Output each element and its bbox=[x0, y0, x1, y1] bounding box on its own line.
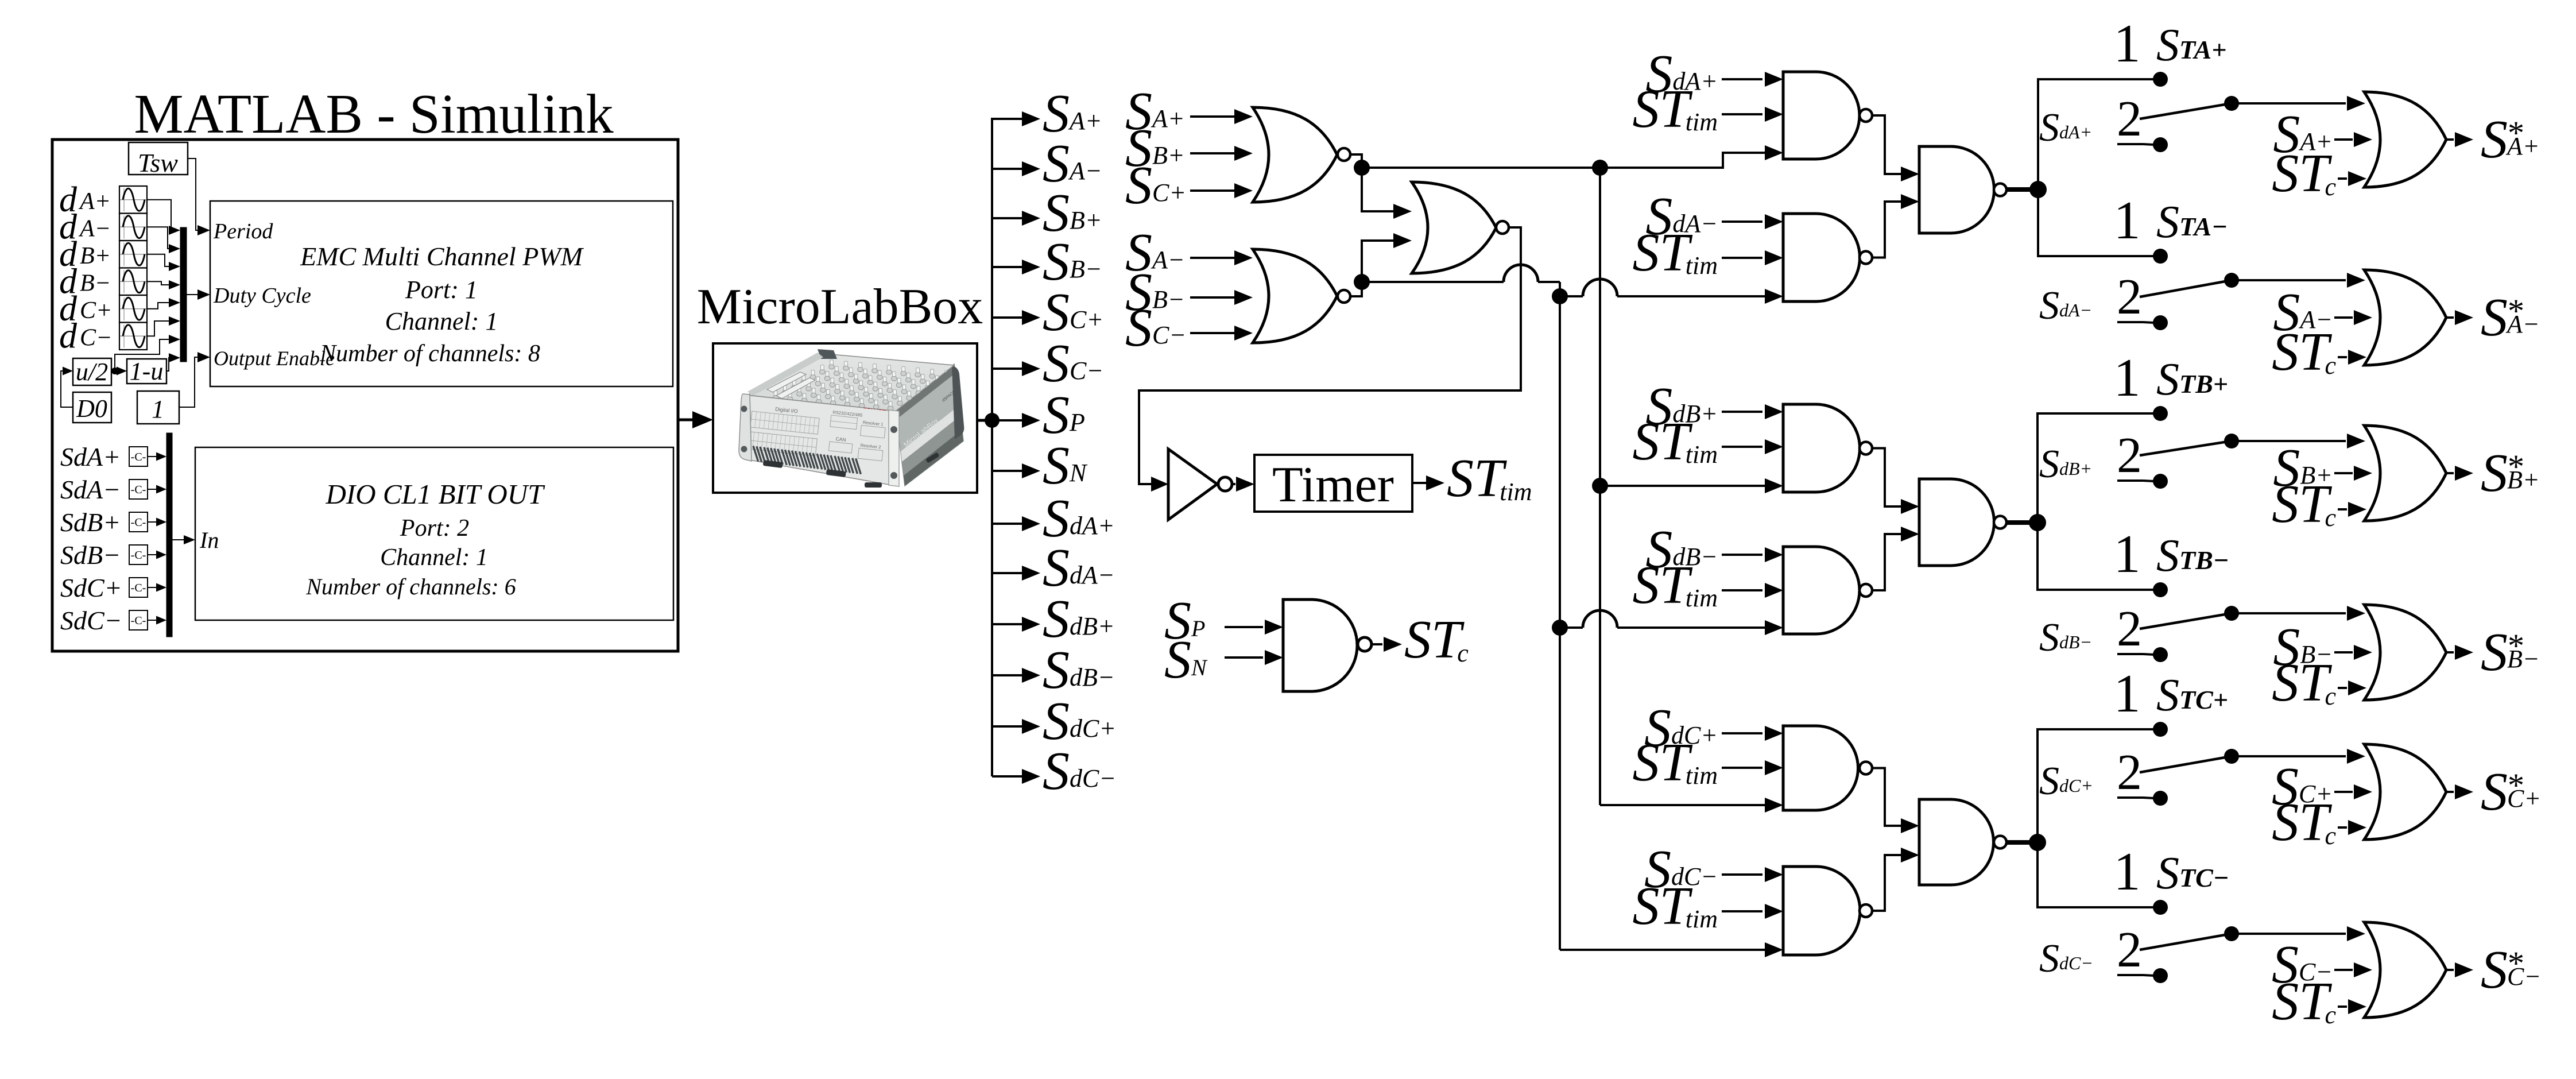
svg-text:Number of channels: 8: Number of channels: 8 bbox=[319, 341, 540, 367]
wire u/2 output branch to Mux1 input 7 bbox=[115, 335, 180, 371]
block constant 1 bbox=[137, 391, 179, 424]
wire NAND B3 output to node TB bbox=[2006, 520, 2037, 525]
input label SdC− to NAND C− bbox=[1644, 840, 1783, 899]
switch TA− lever arm bbox=[2140, 280, 2232, 297]
svg-text:SdA−: SdA− bbox=[60, 475, 121, 504]
sine wave source dA+ block bbox=[119, 186, 147, 214]
svg-text:-C-: -C- bbox=[131, 582, 146, 594]
svg-text:Number of channels: 6: Number of channels: 6 bbox=[305, 574, 516, 600]
wire constant 1 to EMC Output Enable input bbox=[179, 352, 210, 407]
wire sine dA+ to Mux1 input 1 bbox=[147, 200, 180, 235]
svg-text:2: 2 bbox=[2117, 601, 2142, 657]
svg-text:STc: STc bbox=[2272, 972, 2336, 1031]
svg-text:MATLAB - Simulink: MATLAB - Simulink bbox=[134, 83, 614, 145]
mux Mux1 (8 duty-cycle channels) bbox=[180, 227, 187, 362]
output wire and label S*A+ bbox=[2446, 110, 2540, 169]
wire -C- SdC+ to Mux2 bbox=[148, 583, 166, 592]
wire u/2 output to 1-u input bbox=[111, 367, 127, 376]
svg-text:SdC+: SdC+ bbox=[60, 573, 122, 602]
switch TC+ terminal 2 contact bbox=[2153, 791, 2168, 806]
input label SdA+ to NAND A+ bbox=[1645, 44, 1783, 104]
input label SA+ to NOR bbox=[1125, 82, 1253, 141]
wire sine dC+ to Mux1 input 5 bbox=[147, 298, 180, 309]
wire Mux2 output to DIO In bbox=[172, 535, 195, 544]
svg-text:D0: D0 bbox=[76, 395, 107, 423]
svg-text:2: 2 bbox=[2117, 428, 2142, 484]
bus stub wire and label SdC− bbox=[992, 741, 1116, 801]
wire inverter to Timer bbox=[1232, 477, 1254, 492]
svg-text:1: 1 bbox=[2114, 524, 2141, 584]
wire G1 output to node N1 bbox=[1350, 154, 1362, 168]
NAND gate B3 (2-input combiner) bbox=[1919, 479, 2006, 566]
input label SN to NAND Gc bbox=[1164, 630, 1283, 690]
wire N2 to node N4 with hop over G3 output bbox=[1362, 265, 1560, 296]
svg-text:STc: STc bbox=[1404, 610, 1469, 670]
input label SA− to OR A− bbox=[2273, 283, 2372, 342]
input label SP to NAND Gc bbox=[1164, 591, 1283, 651]
wire node TB rail to switch TB+ terminal 1 bbox=[2037, 413, 2160, 523]
NOR gate G3 (combiner) bbox=[1412, 182, 1509, 273]
block EMC Multi Channel PWM bbox=[210, 201, 673, 386]
NOR gate G2 (SA-,SB-,SC-) bbox=[1253, 249, 1350, 343]
switch TA− terminal 2 contact bbox=[2153, 315, 2168, 330]
svg-text:-C-: -C- bbox=[131, 484, 146, 496]
wire N1 to G3 input 1 bbox=[1362, 168, 1412, 219]
svg-text:SdA+: SdA+ bbox=[60, 442, 121, 471]
input label STtim to NAND B− bbox=[1632, 555, 1783, 615]
input label STc to OR A− bbox=[2272, 322, 2366, 382]
svg-text:1: 1 bbox=[152, 395, 164, 423]
block u/2 gain bbox=[73, 358, 111, 386]
wire -C- SdB− to Mux2 bbox=[148, 551, 166, 559]
MicroLabBox device illustration bbox=[739, 349, 964, 488]
constant block -C- for SdB− bbox=[129, 545, 148, 564]
NAND gate C3 (2-input combiner) bbox=[1919, 799, 2006, 885]
svg-text:STc: STc bbox=[2272, 322, 2336, 382]
svg-text:Tsw: Tsw bbox=[138, 148, 178, 177]
svg-text:Period: Period bbox=[213, 219, 273, 243]
svg-text:Channel: 1: Channel: 1 bbox=[380, 544, 488, 571]
svg-text:STc: STc bbox=[2272, 474, 2336, 534]
wire 1-u output to Mux1 input 8 bbox=[166, 353, 180, 371]
junction node N1 (G1 output) bbox=[1354, 160, 1370, 176]
NAND gate Gc (SP,SN -> STc) bbox=[1283, 600, 1372, 691]
junction node N2 (G2 output) bbox=[1354, 274, 1370, 290]
wire sine dB+ to Mux1 input 3 bbox=[147, 254, 180, 271]
label SddB+ 2 for switch TB+ terminal 2 bbox=[2039, 428, 2154, 486]
wire Timer output to STtim label bbox=[1412, 475, 1444, 490]
switch TA+ terminal 2 contact bbox=[2153, 137, 2168, 152]
NAND gate C− (3-input) bbox=[1783, 867, 1872, 955]
bus stub wire and label SB− bbox=[992, 232, 1102, 292]
NAND gate C+ (3-input) bbox=[1783, 726, 1872, 810]
input label SC+ to OR C+ bbox=[2272, 757, 2372, 817]
svg-text:-C-: -C- bbox=[131, 614, 146, 627]
input label STtim to NAND C+ bbox=[1632, 733, 1783, 792]
block MicroLabBox frame bbox=[713, 343, 977, 493]
output wire and label S*A− bbox=[2446, 288, 2540, 347]
junction node N5 (positive rail to B+) bbox=[1592, 478, 1608, 494]
svg-text:SdB−: SdB− bbox=[60, 540, 121, 570]
sine wave source dB+ block bbox=[119, 241, 147, 268]
NOR gate G1 (SA+,SB+,SC+) bbox=[1253, 107, 1350, 202]
block Timer bbox=[1254, 455, 1412, 513]
bus stub wire and label SdA+ bbox=[992, 489, 1115, 548]
switch TB− lever arm bbox=[2140, 613, 2232, 629]
wire sine dB− to Mux1 input 4 bbox=[147, 280, 180, 289]
input label SB+ to NOR bbox=[1125, 118, 1253, 178]
wire NAND A3 output to node TA bbox=[2006, 187, 2038, 192]
label SddC− 2 for switch TC− terminal 2 bbox=[2039, 922, 2154, 981]
input label SB− to NOR bbox=[1125, 262, 1253, 322]
svg-text:MicroLabBox: MicroLabBox bbox=[697, 279, 983, 335]
input label SC+ to NOR bbox=[1125, 156, 1253, 215]
OR gate C− (final) bbox=[2364, 922, 2446, 1018]
wire negative rail elbow to NAND C- input3 bbox=[1560, 942, 1783, 957]
inverter U1 (NOT) bbox=[1168, 449, 1232, 520]
OR gate C+ (final) bbox=[2364, 744, 2446, 840]
label SddC+ 2 for switch TC+ terminal 2 bbox=[2039, 745, 2154, 803]
bus stub wire and label SN bbox=[992, 436, 1088, 496]
wire N5 to NAND B+ input3 bbox=[1600, 478, 1783, 493]
label 1 and STA− for switch TA− bbox=[2114, 191, 2228, 250]
sine wave source dA- block bbox=[119, 214, 147, 241]
switch TC− terminal 2 contact bbox=[2153, 968, 2168, 983]
constant block -C- for SdA− bbox=[129, 479, 148, 499]
svg-text:Channel: 1: Channel: 1 bbox=[385, 307, 498, 335]
output wire and label S*C− bbox=[2446, 940, 2541, 1000]
switch TB− pole contact bbox=[2224, 606, 2239, 621]
switch TB+ pole contact bbox=[2224, 434, 2239, 448]
sine wave source dC- block bbox=[119, 323, 147, 350]
output wire and label S*C+ bbox=[2446, 762, 2541, 822]
wire switch TC+ pole to OR C+ input 1 bbox=[2232, 749, 2365, 764]
input label SB+ to OR B+ bbox=[2273, 438, 2372, 498]
input label STc to OR B+ bbox=[2272, 474, 2366, 534]
wire switch TB− pole to OR B− input 1 bbox=[2232, 606, 2365, 621]
wire -C- SdA+ to Mux2 bbox=[148, 453, 166, 461]
wire node TC rail to switch TC− terminal 1 bbox=[2037, 842, 2160, 907]
switch TB− terminal 1 contact bbox=[2153, 582, 2168, 597]
output wire and label S*B− bbox=[2446, 622, 2540, 682]
OR gate B+ (final) bbox=[2364, 426, 2446, 521]
junction node TB bbox=[2029, 514, 2046, 531]
svg-text:1: 1 bbox=[2114, 191, 2141, 250]
NAND gate A− (3-input) bbox=[1783, 214, 1872, 301]
svg-text:1-u: 1-u bbox=[130, 357, 164, 385]
wire NAND A+ output to NAND A3 input1 bbox=[1872, 115, 1919, 181]
input label STc to OR C− bbox=[2272, 972, 2366, 1031]
wire switch TA+ pole to OR A+ input 1 bbox=[2232, 96, 2365, 111]
wire D0 output to u/2 input bbox=[61, 367, 73, 408]
input label STtim to NAND B+ bbox=[1632, 412, 1783, 471]
wire G3 output down-left to inverter input bbox=[1139, 227, 1521, 492]
wire -C- SdB+ to Mux2 bbox=[148, 518, 166, 527]
input label SA− to NOR bbox=[1125, 223, 1253, 283]
NAND gate B− (3-input) bbox=[1783, 547, 1872, 634]
svg-text:Output Enable: Output Enable bbox=[214, 347, 335, 370]
subsystem box MATLAB-Simulink bbox=[52, 140, 678, 651]
input label SA+ to OR A+ bbox=[2273, 105, 2372, 164]
signal bus vertical line bbox=[991, 118, 993, 776]
wire N2 to G3 input 2 bbox=[1362, 233, 1412, 282]
svg-text:1: 1 bbox=[2114, 842, 2141, 902]
junction node TC bbox=[2029, 834, 2046, 851]
wire N1 to node N3 (positive rail) bbox=[1362, 167, 1600, 169]
wire N3 to NAND A+ input3 (step up) bbox=[1600, 145, 1783, 168]
wire NAND C- output to NAND C3 input2 bbox=[1872, 848, 1919, 911]
switch TB+ lever arm bbox=[2140, 441, 2232, 455]
junction node bus feed bbox=[985, 413, 1000, 428]
constant block -C- for SdC− bbox=[129, 610, 148, 630]
switch TC− lever arm bbox=[2140, 934, 2232, 950]
block D0 constant bbox=[73, 392, 111, 423]
svg-text:1: 1 bbox=[2114, 664, 2141, 724]
label 1 and STA+ for switch TA+ bbox=[2114, 14, 2227, 74]
NAND gate A+ (3-input) bbox=[1783, 72, 1872, 159]
wire node TA rail to switch TA− terminal 1 bbox=[2038, 189, 2160, 256]
wire NAND C3 output to node TC bbox=[2006, 840, 2037, 845]
wire switch TC− pole to OR C− input 1 bbox=[2232, 926, 2365, 941]
input label STc to OR A+ bbox=[2272, 144, 2366, 203]
label SddA− 2 for switch TA− terminal 2 bbox=[2039, 269, 2154, 328]
input label SdB+ to NAND B+ bbox=[1645, 377, 1783, 436]
label 1 and STB+ for switch TB+ bbox=[2114, 348, 2229, 408]
wire Tsw output to EMC Period input bbox=[188, 158, 210, 235]
svg-text:2: 2 bbox=[2117, 922, 2142, 978]
wire sine dC− to Mux1 input 6 bbox=[147, 316, 180, 336]
input label SB− to OR B− bbox=[2273, 617, 2372, 677]
NAND gate A3 (2-input combiner) bbox=[1919, 146, 2006, 233]
junction node N3 bbox=[1592, 160, 1608, 176]
label SddA+ 2 for switch TA+ terminal 2 bbox=[2039, 91, 2154, 150]
label 1 and STC− for switch TC− bbox=[2114, 842, 2229, 902]
svg-text:Duty Cycle: Duty Cycle bbox=[213, 284, 311, 308]
OR gate A− (final) bbox=[2364, 270, 2446, 365]
wire node TA rail to switch TA+ terminal 1 bbox=[2038, 79, 2160, 189]
bus stub wire and label SC− bbox=[992, 334, 1103, 393]
svg-text:2: 2 bbox=[2117, 91, 2142, 147]
wire G2 output to node N2 bbox=[1350, 282, 1362, 296]
wire negative rail N4 vertical bbox=[1559, 296, 1561, 950]
wire NAND B+ output to NAND B3 input1 bbox=[1872, 448, 1919, 515]
block 1-u function bbox=[127, 357, 166, 385]
input label STtim to NAND C− bbox=[1632, 876, 1783, 936]
switch TB+ terminal 2 contact bbox=[2153, 474, 2168, 489]
input label SdB− to NAND B− bbox=[1645, 520, 1783, 579]
wire N6 to NAND B- input3 with hop over positive rail bbox=[1560, 610, 1783, 635]
label 1 and STB− for switch TB− bbox=[2114, 524, 2229, 584]
switch TC+ terminal 1 contact bbox=[2153, 722, 2168, 737]
label 1 and STC+ for switch TC+ bbox=[2114, 664, 2229, 724]
wire NAND A- output to NAND A3 input2 bbox=[1872, 194, 1919, 258]
wire MATLAB output to MicroLabBox input bbox=[678, 411, 713, 428]
block Tsw (switching period constant) bbox=[129, 142, 188, 177]
sine wave source dB- block bbox=[119, 268, 147, 296]
wire -C- SdC− to Mux2 bbox=[148, 616, 166, 625]
svg-text:In: In bbox=[199, 527, 219, 553]
svg-text:STc: STc bbox=[2272, 792, 2336, 852]
input label SdA− to NAND A− bbox=[1645, 187, 1783, 246]
svg-text:2: 2 bbox=[2117, 269, 2142, 325]
label SddB− 2 for switch TB− terminal 2 bbox=[2039, 601, 2154, 660]
wire Gc output to STc label bbox=[1372, 637, 1402, 652]
block DIO CL1 BIT OUT bbox=[195, 447, 673, 620]
bus stub wire and label SB+ bbox=[992, 183, 1102, 243]
NAND gate B+ (3-input) bbox=[1783, 404, 1872, 492]
svg-text:-C-: -C- bbox=[131, 516, 146, 529]
OR gate A+ (final) bbox=[2364, 92, 2446, 187]
switch TA+ terminal 1 contact bbox=[2153, 72, 2168, 87]
svg-text:1: 1 bbox=[2114, 14, 2141, 74]
output wire and label S*B+ bbox=[2446, 443, 2540, 503]
switch TA− terminal 1 contact bbox=[2153, 249, 2168, 264]
switch TC− terminal 1 contact bbox=[2153, 900, 2168, 915]
svg-text:DIO CL1 BIT OUT: DIO CL1 BIT OUT bbox=[326, 478, 546, 510]
bus stub wire and label SA− bbox=[992, 134, 1102, 194]
bus stub wire and label SA+ bbox=[992, 84, 1102, 144]
svg-text:-C-: -C- bbox=[131, 549, 146, 562]
svg-text:1: 1 bbox=[2114, 348, 2141, 408]
constant block -C- for SdC+ bbox=[129, 578, 148, 597]
svg-text:STc: STc bbox=[2272, 144, 2336, 203]
wire positive rail N3 vertical bbox=[1599, 168, 1601, 805]
bus stub wire and label SdB+ bbox=[992, 589, 1115, 649]
input label SC− to OR C− bbox=[2272, 935, 2372, 995]
input label STc to OR B− bbox=[2272, 653, 2366, 713]
switch TA+ lever arm bbox=[2140, 103, 2232, 119]
input label STtim to NAND A− bbox=[1632, 223, 1783, 283]
switch TC+ pole contact bbox=[2224, 749, 2239, 764]
junction node TA bbox=[2029, 181, 2047, 198]
svg-text:u/2: u/2 bbox=[76, 358, 108, 386]
wire sine dA− to Mux1 input 2 bbox=[147, 227, 180, 253]
input label STtim to NAND A+ bbox=[1632, 79, 1783, 139]
switch TB− terminal 2 contact bbox=[2153, 647, 2168, 662]
wire NAND C+ output to NAND C3 input1 bbox=[1872, 768, 1919, 834]
wire positive rail elbow to NAND C+ input3 bbox=[1600, 798, 1783, 813]
svg-text:-C-: -C- bbox=[131, 451, 146, 463]
wire node TB rail to switch TB− terminal 1 bbox=[2037, 523, 2160, 590]
svg-text:EMC Multi Channel PWM: EMC Multi Channel PWM bbox=[300, 242, 584, 271]
switch TA+ pole contact bbox=[2224, 96, 2239, 111]
mux Mux2 (6 digital channels) bbox=[166, 433, 172, 637]
bus stub wire and label SdC+ bbox=[992, 691, 1116, 751]
svg-text:CAN: CAN bbox=[835, 436, 846, 443]
input label STc to OR C+ bbox=[2272, 792, 2366, 852]
svg-text:Timer: Timer bbox=[1272, 457, 1394, 513]
switch TA− pole contact bbox=[2224, 273, 2239, 288]
bus stub wire and label SdA− bbox=[992, 538, 1115, 598]
switch TC− pole contact bbox=[2224, 926, 2239, 941]
OR gate B− (final) bbox=[2364, 605, 2446, 700]
switch TB+ terminal 1 contact bbox=[2153, 406, 2168, 421]
wire Mux1 output to EMC Duty Cycle input bbox=[187, 289, 210, 300]
input label SC− to NOR bbox=[1125, 298, 1253, 358]
svg-text:SdB+: SdB+ bbox=[60, 508, 121, 537]
sine wave source dC+ block bbox=[119, 295, 147, 323]
wire N4 to NAND A- input3 with hop over positive rail bbox=[1560, 279, 1783, 304]
svg-text:2: 2 bbox=[2117, 745, 2142, 800]
bus stub wire and label SC+ bbox=[992, 283, 1103, 342]
wire switch TA− pole to OR A− input 1 bbox=[2232, 273, 2365, 288]
input label SdC+ to NAND C+ bbox=[1644, 698, 1783, 758]
bus stub wire and label SP bbox=[992, 385, 1085, 445]
svg-text:Port: 1: Port: 1 bbox=[405, 276, 478, 304]
constant block -C- for SdB+ bbox=[129, 512, 148, 532]
wire MicroLabBox output to signal bus bbox=[977, 419, 992, 422]
svg-text:Port: 2: Port: 2 bbox=[400, 515, 469, 542]
constant block -C- for SdA+ bbox=[129, 447, 148, 466]
bus stub wire and label SdB− bbox=[992, 640, 1115, 700]
wire NAND B- output to NAND B3 input2 bbox=[1872, 527, 1919, 590]
junction node N6 (negative rail to B-) bbox=[1552, 620, 1568, 636]
wire -C- SdA− to Mux2 bbox=[148, 485, 166, 494]
svg-text:SdC−: SdC− bbox=[60, 606, 122, 635]
junction node N4 bbox=[1552, 288, 1568, 304]
switch TC+ lever arm bbox=[2140, 756, 2232, 772]
wire switch TB+ pole to OR B+ input 1 bbox=[2232, 434, 2365, 448]
wire node TC rail to switch TC+ terminal 1 bbox=[2037, 729, 2160, 842]
svg-text:STc: STc bbox=[2272, 653, 2336, 713]
